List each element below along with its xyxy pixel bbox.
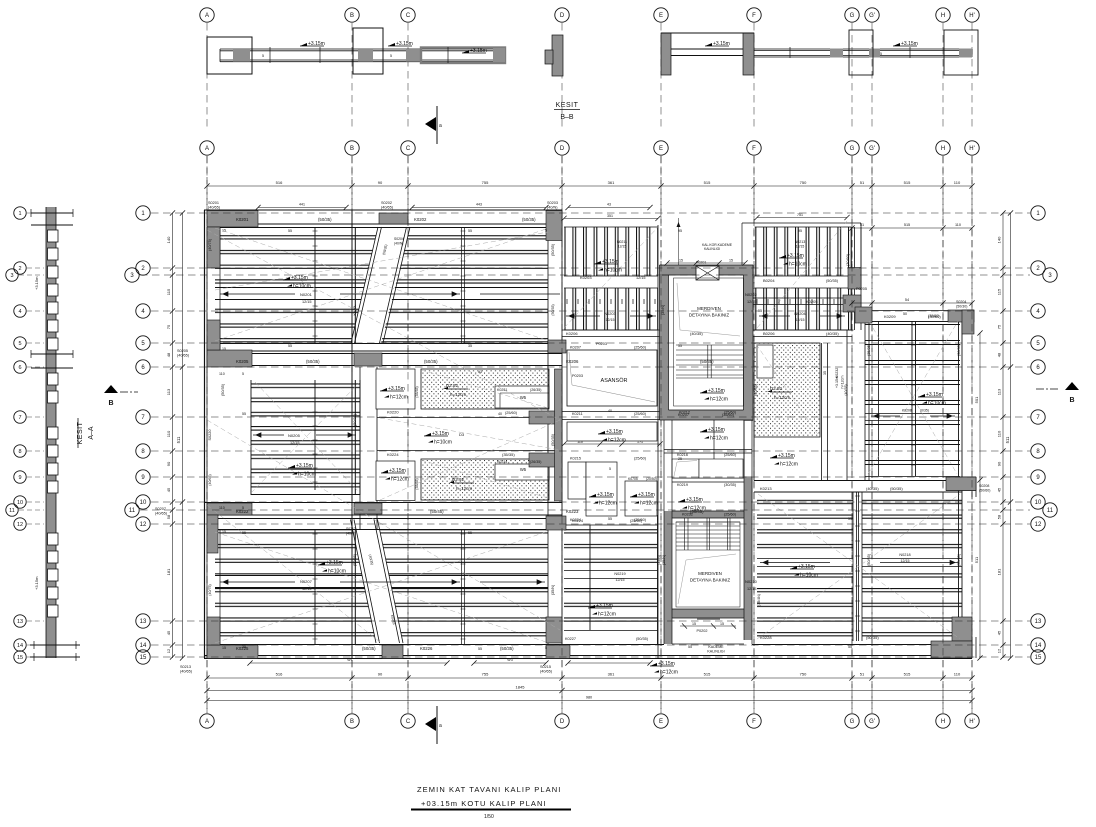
grid dashed line B through plan (351, 156, 353, 713)
section column fill G2 (869, 49, 880, 58)
slab D203 joists (F-G upper, vertical) (742, 223, 861, 330)
grid bubble row 5 right (1031, 336, 1045, 350)
beam label K0215 (288, 433, 301, 445)
column label S0202 (381, 201, 394, 210)
left-section bubble row 10 (14, 496, 26, 508)
stairwell 2 inner outline (676, 522, 740, 607)
svg-text:51: 51 (860, 223, 864, 227)
svg-text:W3: W3 (507, 658, 512, 662)
svg-text:(50/35): (50/35) (522, 217, 536, 222)
grid overlay row 9 (151, 476, 1030, 478)
dotted label D2.92 upper (443, 383, 468, 397)
svg-text:G': G' (869, 719, 875, 725)
stairwell 1 walls (E-F upper) (660, 265, 755, 421)
plan bottom edge (204, 645, 972, 659)
svg-text:(50/35): (50/35) (306, 359, 320, 364)
svg-text:h=12cm: h=12cm (450, 392, 466, 397)
grid bubble E bottom (654, 714, 668, 728)
svg-text:h=12cm: h=12cm (391, 477, 409, 483)
grid bubble C top (401, 8, 415, 22)
grid overlay row 1 (151, 212, 1030, 214)
slab D205 joists (middle-left panel) (251, 380, 360, 495)
slab D201 mid beam band (215, 287, 548, 300)
svg-text:K0232: K0232 (835, 368, 839, 378)
svg-text:55: 55 (678, 344, 682, 348)
column S0205 (A/6) (207, 350, 252, 367)
svg-text:(50/35): (50/35) (551, 243, 555, 256)
svg-text:12: 12 (166, 648, 171, 653)
svg-text:15: 15 (222, 229, 226, 233)
grid overlay row 7 (151, 416, 1030, 418)
svg-text:51: 51 (860, 180, 865, 185)
svg-text:+3.15m: +3.15m (778, 453, 795, 459)
svg-text:+3.15m: +3.15m (308, 41, 325, 47)
svg-text:40: 40 (498, 412, 502, 416)
svg-text:12/15: 12/15 (606, 318, 615, 322)
svg-text:8: 8 (18, 449, 21, 455)
left-section bubble row 5 (14, 337, 26, 349)
svg-text:(25/60): (25/60) (724, 453, 737, 457)
grid bubble row 2 left (136, 261, 150, 275)
grid dashed line G' through plan (871, 156, 873, 713)
svg-text:14: 14 (17, 643, 23, 649)
svg-text:h=12cm: h=12cm (456, 486, 472, 491)
svg-text:W5: W5 (520, 395, 527, 400)
svg-text:14: 14 (1035, 643, 1042, 649)
grid overlay row 11 (140, 509, 1030, 511)
beam label K0217 bottom (300, 579, 758, 591)
beam label K0203 mid (300, 292, 758, 304)
level flag DE panel (594, 259, 622, 274)
section cut arrow upper (425, 106, 442, 144)
grid bubble row 14 left (136, 638, 150, 652)
left-section tie line row 8 (27, 450, 44, 452)
column G2 (G-prime/4) (855, 307, 872, 323)
grid dashed line E through plan (660, 156, 662, 713)
svg-text:K0224: K0224 (387, 452, 399, 457)
svg-text:750: 750 (800, 672, 807, 677)
svg-text:15: 15 (222, 530, 226, 534)
column right-top L tail (962, 310, 974, 334)
slab D213 mid beam band (215, 575, 548, 588)
svg-text:+3.15m: +3.15m (597, 492, 614, 498)
grid bubble row 15 left (136, 650, 150, 664)
joist end tick rows (vertical panels) (567, 299, 845, 304)
stair opening bottom-left (diagonal) (351, 520, 404, 644)
left-section bubble row 12 (14, 518, 26, 530)
level mark +3.15m A-B span (300, 41, 325, 47)
section arrow B right (1036, 382, 1079, 404)
mid-beam arrows DE (566, 314, 845, 318)
section slab strip F-H (754, 49, 972, 57)
level flag EF lower (678, 497, 706, 512)
section arrow B left (104, 385, 138, 407)
svg-text:P0203: P0203 (572, 374, 583, 378)
svg-text:(50/45): (50/45) (430, 509, 444, 514)
svg-text:N0205: N0205 (288, 433, 301, 438)
svg-text:45: 45 (997, 630, 1002, 635)
section room outline at A (207, 37, 252, 74)
grid bubble H top (936, 8, 950, 22)
label boxes E lower (570, 346, 657, 523)
box E lowerB (586, 462, 617, 516)
F-G panel right edge (847, 227, 861, 480)
level flag BR panel (790, 564, 818, 579)
vertical rib x463 top (462, 227, 465, 343)
grid dashed line E top-section (660, 23, 662, 131)
svg-text:113: 113 (997, 388, 1002, 395)
label S0208 stack (979, 484, 990, 493)
level mark +3.15m G-H (893, 41, 918, 47)
left-section bubble row 2 (14, 262, 26, 274)
svg-text:43: 43 (607, 203, 611, 207)
svg-text:(50/35): (50/35) (636, 637, 649, 641)
beam label row10 (236, 509, 704, 514)
svg-text:110: 110 (955, 223, 961, 227)
svg-text:511: 511 (1005, 436, 1010, 443)
dotted label right wing (767, 386, 792, 400)
left-section tie line row 14 (27, 644, 44, 646)
edge tick numbers (222, 229, 547, 651)
box h12 lower (376, 461, 415, 501)
svg-text:a: a (439, 123, 442, 129)
svg-text:h=10cm: h=10cm (328, 569, 346, 575)
grid overlay line G' (871, 156, 873, 713)
svg-text:K0227: K0227 (565, 637, 576, 641)
svg-text:90: 90 (166, 461, 171, 466)
svg-text:ZEMIN KAT TAVANI KALIP PLA: ZEMIN KAT TAVANI KALIP PLANI (417, 785, 561, 794)
left-section window openings (48, 230, 59, 617)
svg-text:D: D (560, 146, 565, 152)
grid overlay row 2 (151, 267, 1030, 269)
section column E (661, 33, 671, 75)
stairwell 1 P0201 column (X-braced) (696, 266, 719, 280)
span diagonals (faint) (207, 221, 960, 643)
svg-text:A–A: A–A (88, 426, 95, 440)
level flag D-E mid2 (589, 492, 617, 507)
right dimension numbers (997, 236, 1011, 653)
svg-text:K0223: K0223 (566, 509, 579, 514)
svg-text:(0/35): (0/35) (920, 409, 929, 413)
bottom dimension chain line 1 (204, 675, 974, 680)
svg-text:K0212: K0212 (679, 411, 690, 415)
left-section tie line row 2 (27, 267, 44, 269)
left-section bubble row 8 (14, 445, 26, 457)
svg-text:F: F (752, 13, 756, 19)
svg-text:K0202: K0202 (414, 217, 427, 222)
svg-text:35: 35 (242, 645, 246, 649)
svg-text:511: 511 (974, 556, 979, 563)
svg-text:D3: D3 (459, 432, 465, 437)
svg-text:S0207: S0207 (155, 507, 166, 511)
scattered tiny labels (242, 229, 907, 651)
vertical beam line B (352, 210, 355, 658)
svg-text:441: 441 (299, 203, 305, 207)
svg-text:G: G (850, 146, 855, 152)
svg-text:B0206: B0206 (763, 331, 775, 336)
svg-text:110: 110 (219, 372, 225, 376)
svg-text:(50/35): (50/35) (362, 646, 376, 651)
grid overlay row 3 (140, 274, 1030, 276)
svg-text:140: 140 (166, 236, 171, 243)
slab D201 joists (top-left panel) (215, 227, 548, 343)
beam label K0202 (414, 217, 536, 222)
svg-text:K0211: K0211 (572, 412, 583, 416)
svg-text:5: 5 (390, 54, 392, 58)
svg-text:W5: W5 (520, 467, 527, 472)
svg-text:K0208: K0208 (902, 409, 912, 413)
svg-text:45: 45 (166, 630, 171, 635)
svg-text:443: 443 (476, 203, 482, 207)
left-section bubble row 6 (14, 361, 26, 373)
svg-text:(35/N): (35/N) (551, 584, 555, 595)
svg-text:N0210: N0210 (745, 579, 758, 584)
svg-text:(50/60): (50/60) (979, 489, 990, 493)
svg-text:(50/35): (50/35) (221, 383, 225, 396)
top-right dim line 2 (849, 298, 974, 306)
svg-text:58: 58 (997, 514, 1002, 519)
svg-text:K0201: K0201 (236, 217, 249, 222)
grid overlay line B (351, 156, 353, 713)
svg-text:h=10cm: h=10cm (604, 268, 622, 274)
label K0222 DE (565, 519, 649, 641)
svg-text:N0213: N0213 (795, 240, 806, 244)
svg-text:KESIT: KESIT (556, 102, 579, 109)
svg-text:75: 75 (166, 324, 171, 329)
svg-text:35: 35 (468, 344, 472, 348)
svg-text:(20/50): (20/50) (646, 477, 657, 481)
vertical beam D (548, 210, 562, 658)
svg-text:140: 140 (997, 236, 1002, 243)
level flag bottom E (650, 661, 678, 676)
svg-text:1: 1 (18, 211, 21, 217)
box E lowerC (625, 481, 657, 516)
svg-text:75: 75 (997, 324, 1002, 329)
svg-text:(50/35): (50/35) (353, 413, 357, 426)
svg-text:55: 55 (242, 412, 246, 416)
svg-text:10: 10 (140, 500, 147, 506)
column S0202 (C/1) (379, 213, 408, 224)
grid bubble row 9 left (136, 470, 150, 484)
right wing top beam K0209 (740, 298, 971, 322)
svg-text:55: 55 (688, 645, 692, 649)
stairwell 1 caption (689, 306, 730, 318)
svg-text:110: 110 (166, 430, 171, 437)
svg-text:S0205: S0205 (177, 349, 188, 353)
svg-text:(50/35): (50/35) (867, 553, 871, 566)
svg-text:515: 515 (704, 180, 711, 185)
svg-text:(25/60): (25/60) (630, 519, 643, 523)
svg-text:(25/60): (25/60) (634, 412, 647, 416)
grid bubble G plan-top (845, 141, 859, 155)
svg-text:55: 55 (468, 229, 472, 233)
svg-text:+3.15m: +3.15m (432, 431, 449, 437)
svg-text:13: 13 (17, 619, 23, 625)
left-section bubble row 13 (14, 615, 26, 627)
K0225 beam band (754, 481, 962, 493)
svg-text:ASANSÖR: ASANSÖR (601, 377, 628, 384)
section room outline H (944, 30, 978, 75)
svg-text:(25/60): (25/60) (505, 411, 518, 415)
svg-text:90: 90 (378, 180, 383, 185)
grid bubble row 12 left (136, 517, 150, 531)
svg-text:P0205: P0205 (856, 287, 867, 291)
svg-text:(50/35): (50/35) (500, 646, 514, 651)
svg-text:(35/35): (35/35) (502, 452, 515, 457)
svg-text:11: 11 (9, 508, 15, 514)
svg-text:K0216: K0216 (677, 453, 688, 457)
top-right dim line (849, 223, 974, 231)
svg-text:D: D (560, 13, 565, 19)
mid-beam arrows BR (760, 560, 958, 564)
svg-text:S0202: S0202 (381, 201, 392, 205)
grid bubble A plan-top (200, 141, 214, 155)
left-section bubble row 11 (6, 504, 18, 516)
svg-text:S0212: S0212 (346, 527, 356, 531)
svg-text:h=12cm: h=12cm (598, 612, 616, 618)
grid overlay row 13 (151, 620, 1030, 622)
svg-text:+3.15m: +3.15m (389, 468, 406, 474)
svg-text:1/50: 1/50 (484, 814, 494, 820)
level flag box1 (380, 386, 408, 401)
left-section tie line row 12 (27, 523, 44, 525)
top section 5 labels (262, 52, 882, 58)
svg-text:+3.15m: +3.15m (396, 41, 413, 47)
left-section cap row 6 (31, 350, 73, 368)
svg-text:361: 361 (608, 672, 615, 677)
svg-text:755: 755 (482, 672, 489, 677)
inner right dimension line (974, 330, 983, 660)
svg-text:S0201: S0201 (208, 201, 219, 205)
svg-text:(35/4N): (35/4N) (757, 594, 761, 606)
svg-text:(35/35): (35/35) (867, 343, 871, 356)
wall D rows7-9 (555, 369, 563, 501)
grid dashed line A through plan (206, 156, 208, 713)
grid bubble G top (845, 8, 859, 22)
svg-text:55: 55 (848, 645, 852, 649)
grid bubble G' top (865, 8, 879, 22)
beam label K0225r (760, 486, 903, 491)
svg-text:+3.15m: +3.15m (926, 392, 943, 398)
svg-text:N0211: N0211 (617, 240, 627, 244)
grid overlay row 10 (151, 501, 1030, 503)
svg-text:+3.15m: +3.15m (596, 603, 613, 609)
svg-text:(40/65): (40/65) (180, 670, 193, 674)
svg-text:(40/65): (40/65) (381, 206, 394, 210)
column D/13 (546, 617, 562, 643)
svg-text:h=12cm: h=12cm (660, 670, 678, 676)
column S0201 (A/1) (207, 211, 258, 228)
slab D218 joists (bottom-right panel) (757, 492, 962, 641)
level mark +3.15m C-D span (462, 48, 487, 54)
svg-text:(50/35): (50/35) (424, 359, 438, 364)
svg-text:K0207: K0207 (570, 346, 581, 350)
svg-text:(40/35): (40/35) (754, 383, 758, 396)
grid bubble D plan-top (555, 141, 569, 155)
svg-text:11: 11 (129, 508, 136, 514)
grid bubble H bottom (936, 714, 950, 728)
svg-text:K0213: K0213 (760, 486, 772, 491)
svg-text:K0228: K0228 (760, 635, 772, 640)
svg-text:MERDIVEN: MERDIVEN (697, 306, 721, 311)
svg-text:48: 48 (166, 352, 171, 357)
svg-text:a: a (439, 723, 442, 729)
level flag box2 (381, 468, 409, 483)
svg-text:11: 11 (1047, 508, 1054, 514)
svg-text:(40/75): (40/75) (208, 238, 212, 251)
section cut arrow lower (425, 706, 442, 744)
column D/7 chunk (529, 411, 562, 424)
svg-text:(50/35): (50/35) (551, 304, 555, 315)
left-section tie line row 7 (27, 416, 44, 418)
svg-text:KADEME: KADEME (708, 645, 724, 649)
grid bubble row 1 right (1031, 206, 1045, 220)
svg-text:+3.15m: +3.15m (326, 560, 343, 566)
level mark +3.15m E-F (705, 41, 730, 47)
svg-text:+3.15m: +3.15m (638, 492, 655, 498)
grid overlay line F (753, 156, 755, 713)
svg-text:A: A (205, 719, 209, 725)
top sub-dimension segments (255, 203, 652, 211)
svg-text:K020L: K020L (353, 305, 357, 316)
svg-text:+3.15m: +3.15m (34, 576, 39, 590)
svg-text:h=12cm: h=12cm (710, 436, 728, 442)
section column fill G area (830, 49, 843, 58)
section column F (743, 33, 754, 75)
svg-text:(30/35): (30/35) (724, 483, 737, 487)
left-section cap row 1 (31, 209, 73, 225)
svg-text:(25/60): (25/60) (634, 346, 647, 350)
grid overlay row 6 (151, 366, 1030, 368)
svg-text:K0219: K0219 (677, 483, 688, 487)
svg-text:B: B (350, 13, 354, 19)
svg-text:13: 13 (1035, 619, 1042, 625)
level flag midleft (288, 463, 316, 478)
section slab strip A-C (220, 49, 500, 62)
grid overlay line D (561, 156, 563, 713)
column C/15 (382, 645, 403, 659)
svg-text:(40/65): (40/65) (155, 512, 168, 516)
grid bubble row 13 left (136, 614, 150, 628)
svg-text:(50/35): (50/35) (551, 433, 555, 446)
svg-text:5: 5 (18, 341, 21, 347)
svg-text:13: 13 (140, 619, 147, 625)
svg-text:(40/65): (40/65) (208, 206, 221, 210)
svg-text:h=12cm: h=12cm (608, 438, 626, 444)
svg-text:+3.15m: +3.15m (901, 41, 918, 47)
svg-text:755: 755 (482, 180, 489, 185)
dotted slab right wing (754, 343, 820, 437)
grid dashed line A top-section (206, 23, 208, 131)
column label S0201 (208, 201, 221, 210)
svg-text:12: 12 (997, 648, 1002, 653)
grid bubble row 3 left (125, 268, 139, 282)
beam label bottom band (236, 646, 514, 651)
svg-text:h=10cm: h=10cm (434, 440, 452, 446)
grid overlay line E (660, 156, 662, 713)
svg-text:(40/65): (40/65) (208, 474, 212, 485)
svg-text:48: 48 (997, 352, 1002, 357)
left-section bubble row 1 (14, 207, 26, 219)
svg-text:12/15: 12/15 (302, 300, 312, 304)
level flag bottom D (588, 603, 616, 618)
grid bubble row 9 right (1031, 470, 1045, 484)
grid bubble B top (345, 8, 359, 22)
labels EF zone (677, 411, 737, 517)
svg-text:12/15: 12/15 (290, 441, 300, 445)
E-F zone side lines (664, 420, 752, 511)
left-section cap rows 14-15 (30, 641, 80, 661)
